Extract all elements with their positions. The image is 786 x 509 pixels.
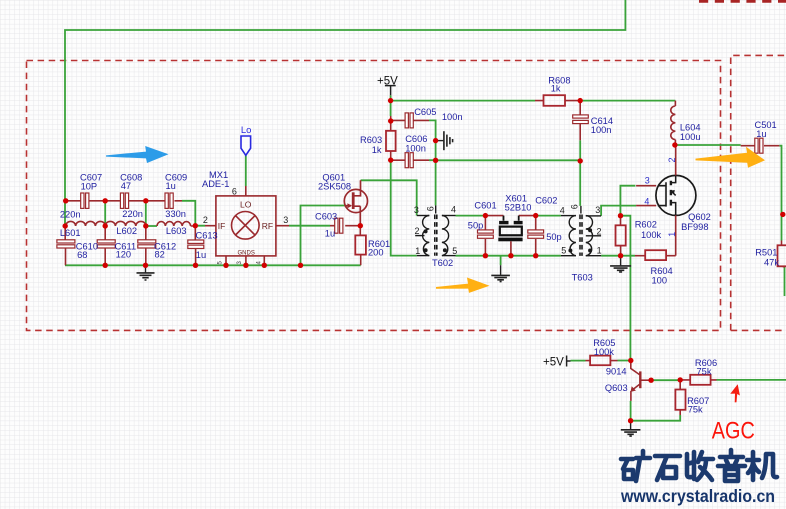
capacitor C606 <box>391 153 429 168</box>
svg-text:2: 2 <box>415 226 420 236</box>
svg-text:4: 4 <box>560 206 565 216</box>
junction (620.5,215.7) <box>618 213 623 218</box>
inductor L601 <box>66 221 106 226</box>
svg-text:1u: 1u <box>325 229 335 239</box>
svg-text:C606: C606 <box>405 134 427 144</box>
wire: gate3 net <box>620 186 635 216</box>
wire: gate4 net from T603 pin3 <box>601 206 636 216</box>
junction (580.2,160.9) <box>578 158 583 163</box>
wire: +5V lower to R605 <box>571 360 586 362</box>
pin numbers and port texts <box>203 187 602 256</box>
junction (435.6,140.6) <box>433 138 438 143</box>
junction (105.2,226) <box>103 223 108 228</box>
wire: filter column 2 <box>104 201 106 226</box>
junction (65.2,226) <box>62 223 67 228</box>
capacitor C601 <box>478 216 494 256</box>
capacitor C611 <box>104 226 106 265</box>
svg-text:120: 120 <box>116 250 132 260</box>
wire: Q603 base to R606/R607 node <box>651 379 680 381</box>
junction (782.8,214.4) <box>780 212 785 217</box>
svg-text:6: 6 <box>570 204 580 209</box>
wire: R501 bottom stub <box>784 267 786 296</box>
wire: R606 out (AGC) <box>717 379 786 381</box>
svg-text:75k: 75k <box>688 405 703 415</box>
wire: L603 left stub <box>146 225 157 227</box>
svg-text:2: 2 <box>597 227 602 237</box>
svg-text:L603: L603 <box>166 226 187 236</box>
resistor R605 <box>586 356 618 366</box>
transistor Q602 BF998 <box>656 175 696 215</box>
junction (145.8,226) <box>143 223 148 228</box>
svg-text:4: 4 <box>644 196 649 206</box>
svg-text:2SK508: 2SK508 <box>318 182 351 192</box>
svg-text:200: 200 <box>368 248 384 258</box>
svg-text:1: 1 <box>667 232 677 237</box>
gnd pin stubs <box>226 256 264 265</box>
inductor L604 <box>671 101 676 145</box>
wire: crystal ground stub <box>500 256 502 266</box>
svg-text:50p: 50p <box>468 221 484 231</box>
svg-text:5: 5 <box>561 246 566 256</box>
resistor R607 <box>675 380 685 415</box>
svg-text:L601: L601 <box>60 228 81 238</box>
wire: C501 to R501 column <box>779 146 781 241</box>
mixer MX1 ADE-1 <box>205 186 289 265</box>
watermark title (stylized CJK strokes) <box>621 450 777 481</box>
svg-text:47k: 47k <box>764 258 779 268</box>
svg-text:3: 3 <box>414 205 419 215</box>
svg-text:4: 4 <box>451 204 456 214</box>
svg-text:100n: 100n <box>405 144 426 154</box>
svg-text:C605: C605 <box>414 107 436 117</box>
wire: Q601 gate net <box>301 206 345 266</box>
capacitor C607 <box>81 193 89 208</box>
svg-text:T603: T603 <box>572 272 593 282</box>
junction (145.8,200.8) <box>143 198 148 203</box>
inductor L603 <box>157 222 195 226</box>
+5V port upper <box>385 86 396 96</box>
capacitor C614 <box>573 101 589 141</box>
junction (630.6,420.7) <box>628 418 633 423</box>
svg-text:330n: 330n <box>165 209 186 219</box>
junction (580.2,100.6) <box>578 98 583 103</box>
wire: C606 node to C614 node <box>436 159 581 161</box>
svg-text:T602: T602 <box>432 258 453 268</box>
svg-text:1: 1 <box>415 246 420 256</box>
svg-text:RF: RF <box>262 221 273 231</box>
red arrow annotation (AGC) <box>730 384 740 402</box>
pin RF stub <box>276 225 289 227</box>
svg-text:2: 2 <box>203 215 208 225</box>
wire: crystal top rail <box>456 215 561 217</box>
svg-text:Q602: Q602 <box>688 212 711 222</box>
svg-text:5: 5 <box>452 246 457 256</box>
svg-text:10P: 10P <box>81 182 98 192</box>
blue arrow annotation <box>106 146 169 163</box>
capacitor C610 <box>64 226 66 265</box>
junction (680.2,379.9) <box>678 377 683 382</box>
svg-text:C613: C613 <box>196 230 218 240</box>
resistor R601 <box>355 226 366 266</box>
svg-text:1u: 1u <box>756 129 766 139</box>
svg-text:www.crystalradio.cn: www.crystalradio.cn <box>620 486 775 506</box>
capacitor C612 <box>145 226 147 265</box>
ground (Q603 emitter) <box>621 421 641 436</box>
junction (630.8,360.5) <box>628 358 633 363</box>
svg-text:LO: LO <box>240 199 252 209</box>
svg-text:52B10: 52B10 <box>505 203 532 213</box>
ground (R602) <box>610 256 631 272</box>
char kuang <box>621 451 650 481</box>
svg-text:82: 82 <box>155 250 165 260</box>
junction (651.1,380.2) <box>648 378 653 383</box>
wire: C609 to IF node <box>182 201 205 226</box>
svg-text:100k: 100k <box>594 347 615 357</box>
junction (264.3,265.3) <box>262 263 267 268</box>
svg-text:220n: 220n <box>60 209 81 219</box>
wire: Lo port to MX1 pin6 <box>245 155 247 186</box>
svg-text:IF: IF <box>218 221 226 231</box>
pin IF stub <box>205 225 216 227</box>
inductor L602 <box>105 221 146 226</box>
svg-text:100u: 100u <box>680 132 701 142</box>
capacitor C613 <box>194 226 196 266</box>
junction (620.6,255.7) <box>618 253 623 258</box>
ground (crystal) <box>491 265 510 281</box>
svg-text:100n: 100n <box>442 112 463 122</box>
section box 2 (dashed, right) <box>731 55 786 330</box>
wire: L604 node to C501 <box>675 144 741 146</box>
wire: RF output to C603 <box>289 225 330 227</box>
capacitor C501 <box>741 138 780 153</box>
resistor R602 <box>616 216 626 256</box>
capacitor C603 <box>330 218 360 233</box>
junction (390.7,121) <box>388 118 393 123</box>
junction (435.6,160.3) <box>433 158 438 163</box>
transformer T602 <box>415 205 455 255</box>
svg-text:AGC: AGC <box>712 418 755 445</box>
junction (390.7,160.1) <box>388 157 393 162</box>
junction (195.5,265.3) <box>193 263 198 268</box>
svg-text:C603: C603 <box>315 212 337 222</box>
junction (535.7,255.7) <box>533 253 538 258</box>
svg-text:68: 68 <box>77 250 87 260</box>
wire: mixer ground rail <box>65 264 361 266</box>
svg-text:R501: R501 <box>755 248 777 258</box>
wire: filter column 3 <box>145 201 147 226</box>
svg-text:220n: 220n <box>122 209 143 219</box>
junction (105.2,200.8) <box>103 198 108 203</box>
resistor R501 <box>778 241 786 268</box>
svg-text:3: 3 <box>595 205 600 215</box>
wire: R607 bottom / Q603 emitter rail <box>631 401 681 421</box>
junction (105.2,265.3) <box>103 263 108 268</box>
wire: R603 column <box>391 101 417 256</box>
wire: R602 top to Q603 collector (long vertical) <box>621 216 631 361</box>
yellow arrow annotation (right) <box>696 147 766 168</box>
svg-text:100k: 100k <box>641 230 662 240</box>
capacitor C605 <box>391 113 429 128</box>
junction (65.7,200.8) <box>63 198 68 203</box>
svg-text:+5V: +5V <box>377 76 398 88</box>
svg-text:ADE-1: ADE-1 <box>202 179 229 189</box>
junction (195.3,225.7) <box>193 223 198 228</box>
resistor R603 <box>386 116 396 160</box>
lead wires row1 filter <box>66 200 182 202</box>
svg-text:9014: 9014 <box>606 366 627 376</box>
resistor R604 <box>635 250 676 260</box>
GREEN WIRES <box>65 0 786 421</box>
svg-text:1k: 1k <box>372 145 382 155</box>
svg-text:75k: 75k <box>697 367 712 377</box>
resistor R606 <box>680 375 716 385</box>
svg-text:Q603: Q603 <box>605 383 628 393</box>
ground (MX1 rail) <box>137 265 155 280</box>
Lo port <box>241 136 251 155</box>
wire: top-left input rail <box>65 0 625 226</box>
svg-text:6: 6 <box>232 187 237 197</box>
svg-text:GNDS: GNDS <box>238 250 255 256</box>
svg-text:C602: C602 <box>535 196 557 206</box>
svg-text:1: 1 <box>597 246 602 256</box>
junction (300.5,265.3) <box>298 263 303 268</box>
top-right heavy dashed border <box>699 0 786 3</box>
transformer T603 <box>561 206 601 256</box>
svg-text:C601: C601 <box>474 200 496 210</box>
svg-text:1k: 1k <box>551 84 561 94</box>
crystal X601 <box>485 216 535 256</box>
junction (360.3,225.7) <box>358 223 363 228</box>
wire: R605 to Q603 collector <box>618 360 631 362</box>
DARK RED COMPONENT GRAPHICS <box>57 193 204 265</box>
svg-text:3: 3 <box>283 215 288 225</box>
wire: +5V rail top <box>391 95 535 100</box>
svg-text:1u: 1u <box>196 250 206 260</box>
+5V port lower <box>567 356 571 367</box>
svg-text:+5V: +5V <box>543 356 564 368</box>
svg-text:2: 2 <box>667 157 677 162</box>
wire: T603 pin1 to R604 <box>601 255 635 257</box>
svg-text:BF998: BF998 <box>681 222 708 232</box>
junction (485.4,215.6) <box>483 213 488 218</box>
section box 1 (dashed) <box>27 61 721 331</box>
Q602 leads <box>636 145 676 256</box>
svg-text:47: 47 <box>121 181 131 191</box>
svg-text:R602: R602 <box>635 220 657 230</box>
wire: crystal bottom rail <box>456 255 561 257</box>
svg-text:L602: L602 <box>116 226 137 236</box>
junction (510.9,255.7) <box>508 253 513 258</box>
wire: C605/C606 right column to T602 pin6 <box>429 120 436 205</box>
junction (485.4,255.7) <box>483 253 488 258</box>
junction (390.6,100.6) <box>388 98 393 103</box>
svg-text:L604: L604 <box>680 123 701 133</box>
capacitor C609 <box>165 193 173 208</box>
junction (674.9,145) <box>672 142 677 147</box>
capacitor C608 <box>120 193 128 208</box>
pin 6 stub <box>245 186 247 196</box>
resistor R608 <box>535 95 580 106</box>
svg-text:100: 100 <box>652 275 668 285</box>
junction (145.5,265.3) <box>143 263 148 268</box>
svg-text:3: 3 <box>645 175 650 185</box>
wire: C614 to T603 pin6 <box>579 140 581 206</box>
ground (rotated, near C605) <box>436 131 453 150</box>
transistor Q603 9014 <box>631 361 652 401</box>
svg-text:50p: 50p <box>546 232 562 242</box>
svg-text:R603: R603 <box>360 135 382 145</box>
junction (245.9,265.3) <box>243 263 248 268</box>
junction (535.7,215.6) <box>533 213 538 218</box>
junction (226,265.3) <box>223 263 228 268</box>
wire: Q601 drain to T602 pin3 <box>361 180 417 215</box>
wire: R608 to L604 <box>580 100 675 102</box>
transistor Q601 2SK508 <box>344 180 367 225</box>
yellow arrow annotation (middle) <box>436 278 490 293</box>
svg-text:1u: 1u <box>166 181 176 191</box>
svg-text:6: 6 <box>426 206 436 211</box>
svg-text:Lo: Lo <box>241 125 252 136</box>
svg-text:100n: 100n <box>591 125 612 135</box>
capacitor C602 <box>528 216 544 256</box>
